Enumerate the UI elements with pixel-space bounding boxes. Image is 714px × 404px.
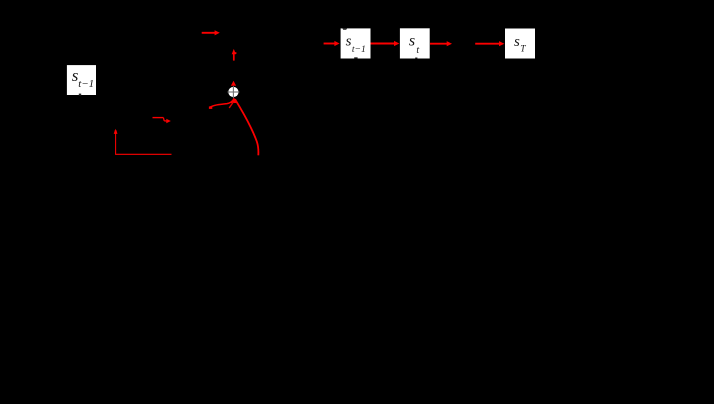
- wire: red L-shape with up arrow: [114, 129, 172, 155]
- black arrow notch at box bottom: [354, 57, 357, 58]
- node s_t chain box: [400, 28, 430, 58]
- node s_{t-1} left box: [67, 65, 96, 95]
- svg-text:s: s: [346, 34, 352, 50]
- svg-text:T: T: [520, 44, 526, 54]
- wire: small jogged red arrow: [153, 118, 171, 124]
- wire: red curve from adder down to lower-right: [235, 99, 258, 155]
- svg-text:s: s: [514, 34, 520, 50]
- black arrow notch at box top: [342, 28, 347, 29]
- wire: red arrow s_{t-1} to s_t: [371, 41, 400, 46]
- node s_T chain box: [505, 29, 535, 59]
- svg-text:t−1: t−1: [78, 78, 94, 90]
- adder (circle-plus): [227, 86, 239, 98]
- wire: tiny red arrowhead above adder: [231, 81, 236, 86]
- wire: red arrow into s_T: [475, 41, 504, 46]
- wire: red curve from lower-left into adder: [209, 101, 234, 109]
- svg-text:t−1: t−1: [352, 44, 366, 55]
- black arrow notch at box bottom: [415, 58, 417, 59]
- node s_{t-1} chain box: [341, 28, 371, 58]
- wire: red vertical arrow above adder: [232, 49, 237, 61]
- svg-text:s: s: [409, 32, 415, 49]
- wire: red arrow out of s_t: [430, 41, 452, 46]
- wire: red arrow into chain box s_{t-1}: [324, 41, 340, 46]
- wire: red arrowhead entering adder from below: [231, 97, 238, 103]
- wire: top-left red arrow: [202, 30, 220, 35]
- svg-text:t: t: [416, 45, 419, 56]
- black arrow notch at box bottom: [79, 94, 81, 96]
